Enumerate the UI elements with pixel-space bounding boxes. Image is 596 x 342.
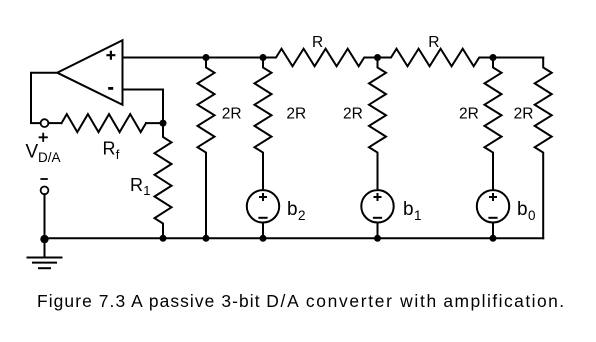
svg-text:f: f [116,147,120,162]
wire: op-amp output to V_D/A + terminal [31,73,57,123]
label: b0 [517,199,536,223]
label: - polarity of V_D/A [40,178,47,180]
junction: b2 to ground rail [260,235,267,242]
wire: ground rail (bottom) [45,237,544,239]
resistor 2R (bit b2 branch) [255,58,272,191]
junction: inverting node (Rf / R1 / op-amp -) [160,120,167,127]
svg-text:b: b [287,199,298,220]
svg-text:Figure 7.3 A passive 3-bit: Figure 7.3 A passive 3-bit [37,291,261,311]
caption [37,291,566,311]
svg-text:2R: 2R [514,106,534,123]
resistor 2R (terminating resistor at node N1) [198,58,215,239]
svg-text:b: b [403,199,414,220]
svg-text:2R: 2R [343,106,363,123]
junction: node N1 (top rail) [203,54,210,61]
source b1 (voltage source) [361,190,393,222]
svg-text:D/A: D/A [38,150,61,165]
junction: node N4 (top rail) [490,54,497,61]
wire: top rail, op-amp + input to node N2 [123,57,264,59]
source b0 (voltage source) [477,190,509,222]
junction: ground rail left end / V_D/A - [40,235,48,243]
label: V_D/A [26,142,61,166]
source b2 (voltage source) [247,190,279,222]
resistor R1 [155,123,172,238]
junction: R1 to ground rail [160,235,167,242]
svg-text:R: R [130,175,143,195]
label: b2 [287,199,306,223]
resistor R (between node N3 and N4) [378,49,494,67]
svg-text:R: R [312,34,323,51]
junction: terminating 2R to ground rail [203,235,210,242]
junction: b0 to ground rail [490,235,497,242]
wire: b1 to ground rail [377,223,379,239]
svg-text:2: 2 [298,208,306,223]
svg-text:2R: 2R [286,106,306,123]
resistor 2R (bit b1 branch) [369,58,386,191]
wire: b0 to ground rail [492,223,494,239]
junction: b1 to ground rail [374,235,381,242]
resistor 2R (rightmost fixed branch) [535,58,552,239]
svg-text:D/A converter with: D/A converter with [266,291,438,311]
terminal: V_D/A + (open circle) [41,119,49,127]
svg-text:2R: 2R [222,106,242,123]
svg-text:amplification.: amplification. [443,291,565,311]
resistor Rf [62,114,147,132]
label: R1 [130,175,151,198]
svg-text:1: 1 [143,183,150,198]
resistor R (between node N2 and N3) [263,49,378,67]
wire: b2 to ground rail [262,223,264,239]
svg-text:2R: 2R [459,106,479,123]
resistor 2R (bit b0 branch) [485,58,502,191]
op-amp U1 [57,40,122,105]
svg-text:1: 1 [414,208,422,223]
junction: node N3 (top rail) [374,54,381,61]
terminal: V_D/A - (open circle) [41,187,49,195]
label: + polarity of V_D/A [39,133,48,142]
label: b1 [403,199,422,223]
wire: V_D/A - terminal to ground rail [44,194,46,238]
svg-text:R: R [103,139,116,159]
label: Rf [103,139,120,162]
svg-text:R: R [428,34,439,51]
svg-text:0: 0 [528,208,536,223]
ground symbol [27,238,63,268]
wire: top rail, node N4 to right corner [493,57,543,59]
wire: inverting input of op-amp to node [123,90,164,124]
svg-text:b: b [517,199,528,220]
junction: node N2 (top rail) [260,54,267,61]
wire: Rf to inverting node [146,122,163,124]
svg-text:V: V [26,142,39,163]
wire: V_D/A + terminal to Rf [48,122,61,124]
